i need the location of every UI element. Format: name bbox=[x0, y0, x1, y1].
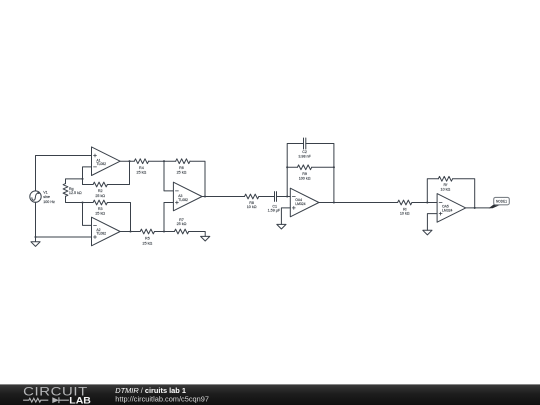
svg-text:sine: sine bbox=[43, 195, 50, 199]
wire R2 row from A1 feedback node bbox=[83, 184, 94, 186]
svg-text:10 kΩ: 10 kΩ bbox=[247, 205, 257, 209]
wire A3 output row to R8 bbox=[202, 196, 245, 198]
svg-text:LM324: LM324 bbox=[295, 202, 305, 206]
wire C1 to OA4 inverting input bbox=[277, 196, 291, 198]
wire OA4 non-inverting input to ground bbox=[281, 208, 290, 225]
wire A2 output row bbox=[120, 231, 140, 233]
op-amp A1 (TL082) bbox=[92, 147, 121, 176]
wire A3 non-inverting input stub bbox=[164, 203, 173, 232]
ground symbol at V1 bbox=[31, 237, 40, 246]
wire A3 inverting input stub bbox=[164, 161, 173, 191]
resistor R6 25 kOhm bbox=[176, 159, 190, 175]
svg-text:25 kΩ: 25 kΩ bbox=[95, 194, 105, 198]
wire R5 to A3 non-inverting node bbox=[155, 231, 175, 233]
svg-text:R9: R9 bbox=[302, 172, 307, 176]
node junction A1 feedback / Rg top bbox=[81, 178, 83, 180]
node junction OA4 inverting net bbox=[286, 195, 288, 197]
wire OA5 feedback left vertical bbox=[427, 179, 438, 203]
svg-text:R6: R6 bbox=[179, 166, 184, 170]
svg-text:100 Hz: 100 Hz bbox=[43, 200, 55, 204]
node junction OA5 output / feedback bbox=[474, 207, 476, 209]
resistor R8 10 kOhm bbox=[245, 194, 259, 209]
op-amp A3 (TL082) bbox=[173, 182, 202, 211]
svg-text:TL082: TL082 bbox=[96, 232, 106, 236]
svg-text:25 kΩ: 25 kΩ bbox=[137, 171, 147, 175]
svg-text:100 kΩ: 100 kΩ bbox=[299, 176, 311, 180]
resistor Rg 12.5 kOhm (vertical) bbox=[63, 184, 82, 197]
node junction at V1 ground bbox=[34, 236, 36, 238]
svg-text:LAB: LAB bbox=[69, 396, 91, 405]
wire R8 to C1 bbox=[259, 196, 275, 198]
resistor R5 25 kOhm bbox=[140, 229, 154, 245]
svg-text:R5: R5 bbox=[145, 237, 150, 241]
resistor R2 25 kOhm bbox=[93, 182, 107, 198]
svg-text:NODE1: NODE1 bbox=[496, 199, 507, 203]
ground symbol at OA5 bbox=[423, 230, 432, 235]
svg-text:25 kΩ: 25 kΩ bbox=[143, 241, 153, 245]
svg-text:3.98 nF: 3.98 nF bbox=[298, 154, 311, 158]
resistor R4 25 kOhm bbox=[134, 159, 148, 175]
wire R2 to A1 output bbox=[107, 161, 129, 184]
svg-text:V1: V1 bbox=[43, 191, 48, 195]
wire R9 row right bbox=[312, 166, 334, 168]
svg-text:C2: C2 bbox=[302, 150, 307, 154]
resistor R7 25 kOhm bbox=[174, 218, 188, 234]
svg-text:10 kΩ: 10 kΩ bbox=[441, 188, 451, 192]
node junction Rg bottom / A2 inverting bbox=[81, 201, 83, 203]
resistor R3 25 kOhm bbox=[93, 200, 107, 215]
wire R9 row left bbox=[287, 166, 297, 168]
wire R4 to A3 inverting node bbox=[149, 160, 176, 162]
wire V1 top to A1 non-inverting input bbox=[36, 156, 92, 191]
resistor Ri 10 kOhm bbox=[398, 200, 412, 215]
wire A2 inverting input branch bbox=[83, 203, 92, 226]
voltage source V1 (sine, 100 Hz) bbox=[30, 191, 55, 204]
svg-text:R4: R4 bbox=[139, 166, 144, 170]
wire R6 to A3 output bbox=[190, 161, 205, 196]
wire OA5 non-inverting input to ground bbox=[427, 214, 437, 231]
svg-text:1.59 µF: 1.59 µF bbox=[268, 209, 281, 213]
node flag NODE1 bbox=[489, 197, 510, 208]
node junction A1 output bbox=[128, 160, 130, 162]
svg-text:25 kΩ: 25 kΩ bbox=[177, 171, 187, 175]
node junction R9 right bbox=[333, 166, 335, 168]
svg-text:TL082: TL082 bbox=[178, 198, 188, 202]
wire OA5 output to NODE1 flag bbox=[466, 207, 490, 209]
capacitor C2 3.98 nF bbox=[298, 138, 311, 158]
resistor R9 100 kOhm bbox=[297, 165, 311, 180]
op-amp OA4 (LM324) bbox=[290, 188, 319, 217]
resistor Rf 10 kOhm (feedback) bbox=[438, 176, 452, 191]
node junction OA4 output bbox=[333, 201, 335, 203]
node junction A2 output bbox=[129, 230, 131, 232]
svg-text:10 kΩ: 10 kΩ bbox=[400, 211, 410, 215]
logo wire with resistor and diode bbox=[23, 397, 69, 403]
wire R7 to ground bbox=[189, 232, 206, 237]
wire C2 to feedback right vertical bbox=[306, 144, 334, 203]
wire Rg bottom rail bbox=[66, 196, 94, 202]
svg-text:R2: R2 bbox=[98, 189, 103, 193]
capacitor C1 1.59 uF bbox=[268, 192, 281, 213]
ground symbol at R7 bbox=[201, 236, 210, 241]
node junction OA5 inverting net bbox=[426, 201, 428, 203]
ground symbol at OA4 bbox=[277, 224, 286, 229]
wire Rf to OA5 output bbox=[453, 179, 475, 208]
node junction A3 output / R6 feedback bbox=[204, 195, 206, 197]
wire A1 output row bbox=[120, 160, 134, 162]
svg-text:TL082: TL082 bbox=[96, 162, 106, 166]
svg-text:25 kΩ: 25 kΩ bbox=[177, 222, 187, 226]
footer bar background bbox=[0, 384, 540, 405]
wire V1 bottom to ground junction and A2 non-inverting input bbox=[36, 202, 92, 237]
wire A1 inverting input down to feedback node bbox=[83, 167, 92, 185]
svg-text:LM324: LM324 bbox=[442, 209, 452, 213]
wire Ri to OA5 inverting input bbox=[412, 202, 437, 204]
node junction A3 inverting net bbox=[163, 160, 165, 162]
node junction R9 left bbox=[286, 166, 288, 168]
svg-text:12.5 kΩ: 12.5 kΩ bbox=[69, 191, 82, 195]
wire OA4 feedback left vertical bbox=[287, 144, 303, 197]
node junction A3 non-inverting net bbox=[163, 230, 165, 232]
op-amp OA5 (LM324) bbox=[437, 194, 466, 223]
wire OA4 output row bbox=[319, 202, 398, 204]
svg-text:R3: R3 bbox=[98, 207, 103, 211]
svg-text:http://circuitlab.com/c5cqn97: http://circuitlab.com/c5cqn97 bbox=[115, 394, 209, 403]
svg-text:25 kΩ: 25 kΩ bbox=[95, 211, 105, 215]
wire Rg top rail bbox=[66, 179, 83, 184]
op-amp A2 (TL082) bbox=[92, 217, 121, 246]
wire R3 to A2 output bbox=[107, 203, 130, 232]
